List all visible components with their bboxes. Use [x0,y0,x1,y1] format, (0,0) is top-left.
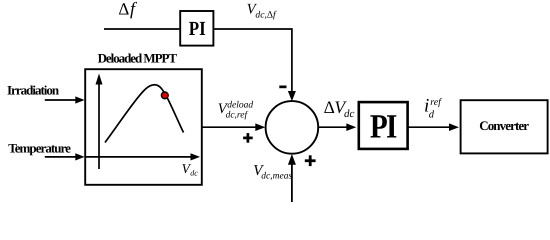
svg-text:Temperature: Temperature [8,140,71,155]
graph vertical axis (power) [96,74,103,170]
svg-text:deload: deload [227,101,253,111]
arrowhead into summing junction top [288,91,296,101]
plus sign (measurement input) [305,155,316,166]
node Δf input label [118,0,138,19]
MPPT power curve [105,85,184,143]
svg-text:Converter: Converter [479,118,529,133]
wire Temperature arrow into MPPT [45,153,85,160]
PI controller U1 (frequency loop) [180,11,213,46]
wire MPPT output to summing junction [202,123,265,131]
svg-text:ref: ref [430,97,442,108]
graph axis label Vdc [182,161,199,178]
node id ref current reference label [424,96,442,121]
deloaded operating point (red dot) [161,92,168,99]
node Vdc,ref deload label [218,101,254,121]
svg-text:Deloaded MPPT: Deloaded MPPT [98,50,178,65]
svg-text:dc,ref: dc,ref [226,111,249,121]
wire PI2 output to Converter [408,123,459,131]
svg-text:dc,meas: dc,meas [261,172,292,182]
wire summing junction to PI2 [318,123,356,131]
wire Irradiation arrow into MPPT [45,96,85,103]
wire PI1 output to summing junction (with corner) [214,29,292,92]
svg-text:d: d [429,110,435,121]
Temperature input label [8,140,71,155]
node ΔVdc label [324,97,355,120]
PI controller U2 (voltage loop) [359,102,408,149]
svg-text:dc: dc [344,108,355,120]
plus sign (MPPT input) [243,133,253,143]
node Vdc,meas label [253,163,292,182]
node Vdc,Δf label [247,2,277,21]
svg-text:Irradiation: Irradiation [7,83,60,98]
svg-text:Δf: Δf [118,0,138,19]
summing junction node [266,101,319,154]
svg-text:PI: PI [189,18,206,40]
Deloaded MPPT block [85,69,202,185]
graph horizontal axis Vdc [86,153,200,160]
Deloaded MPPT title [98,50,178,65]
svg-text:dc: dc [190,169,198,178]
wire Vdc,meas up into summing junction [288,154,296,202]
svg-text:dc,Δf: dc,Δf [255,9,277,20]
wire Δf input to PI1 [104,28,179,30]
svg-text:PI: PI [370,109,397,146]
Converter block [461,100,548,153]
minus sign at summing junction [279,86,286,89]
Irradiation input label [7,83,60,98]
